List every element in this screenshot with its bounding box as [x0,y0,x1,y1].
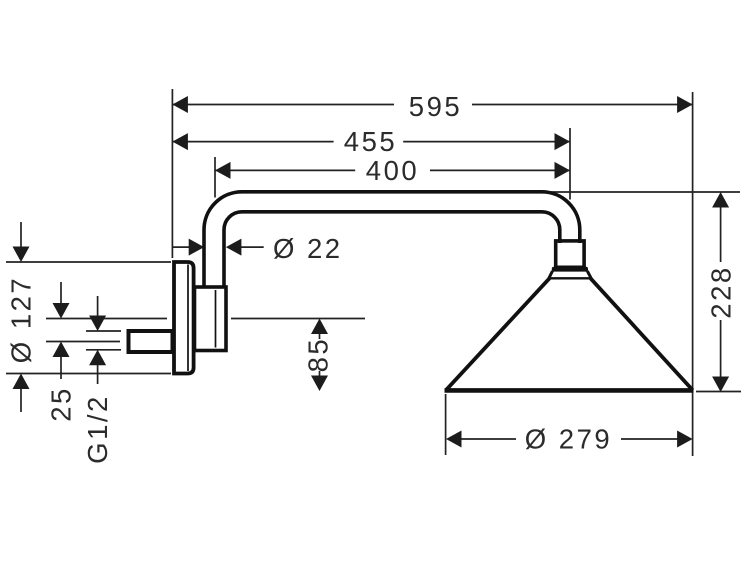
svg-text:595: 595 [409,91,462,122]
svg-text:Ø 127: Ø 127 [6,276,37,363]
svg-text:Ø 279: Ø 279 [525,424,612,455]
svg-text:G1/2: G1/2 [82,394,113,464]
svg-text:85: 85 [303,337,334,373]
svg-text:400: 400 [366,155,419,186]
svg-text:455: 455 [344,126,397,157]
svg-text:25: 25 [46,386,77,422]
svg-text:228: 228 [706,265,737,318]
svg-text:Ø 22: Ø 22 [273,233,343,264]
